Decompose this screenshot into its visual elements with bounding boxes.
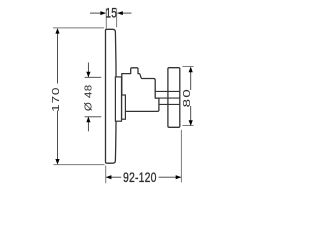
arrowhead pointing right <box>100 11 106 15</box>
arrowhead pointing down <box>55 159 59 165</box>
arrowhead pointing up <box>86 117 90 123</box>
escutcheon plate (side view) <box>106 29 117 163</box>
dimension Ø 48 (sleeve diameter) <box>83 63 101 132</box>
dimension line lower segment <box>57 111 59 164</box>
svg-text:15: 15 <box>106 5 118 21</box>
valve body with top tab and stepped profile <box>122 68 159 112</box>
dimension line right segment <box>159 176 181 178</box>
dimension 92-120 (installation depth) <box>106 130 182 185</box>
extension line top <box>53 27 104 29</box>
leader line above <box>87 63 89 77</box>
dimension 15 (plate depth) <box>90 5 132 29</box>
tick line top <box>85 76 102 78</box>
extension line left <box>105 166 107 184</box>
svg-text:80: 80 <box>180 88 192 107</box>
arrowhead pointing down <box>86 72 90 78</box>
dimension 170 (plate height) <box>50 28 105 165</box>
handle stem lower line <box>155 97 179 99</box>
inner sleeve step <box>122 95 126 119</box>
extension line right <box>180 130 182 183</box>
arrowhead pointing left <box>106 175 112 179</box>
arrowhead pointing left <box>117 11 123 15</box>
dimension line upper segment <box>190 68 192 91</box>
arrowhead pointing up <box>189 67 193 73</box>
extension line bottom <box>182 125 193 127</box>
svg-text:170: 170 <box>50 87 62 112</box>
svg-text:Ø 48: Ø 48 <box>83 84 94 111</box>
handle hub line <box>159 103 180 105</box>
handle stem upper line <box>155 90 179 92</box>
extension line left <box>105 8 107 28</box>
leader line below <box>87 117 89 131</box>
flange sleeve on plate <box>115 77 121 121</box>
dimension line lower segment <box>190 106 192 125</box>
handle bar (vertical grip) <box>168 68 180 128</box>
dimension line upper segment <box>57 30 59 84</box>
arrowhead pointing down <box>189 120 193 126</box>
extension line bottom <box>54 164 105 166</box>
tick line bottom <box>85 116 102 118</box>
arrowhead pointing up <box>55 28 59 33</box>
leader line right <box>118 12 132 14</box>
arrowhead pointing right <box>176 175 182 179</box>
dimension 80 (handle length) <box>180 67 193 126</box>
leader line left <box>90 12 106 14</box>
svg-text:92-120: 92-120 <box>123 169 157 185</box>
extension line right <box>116 8 118 27</box>
extension line top <box>182 66 193 68</box>
dimension line left segment <box>106 176 121 178</box>
